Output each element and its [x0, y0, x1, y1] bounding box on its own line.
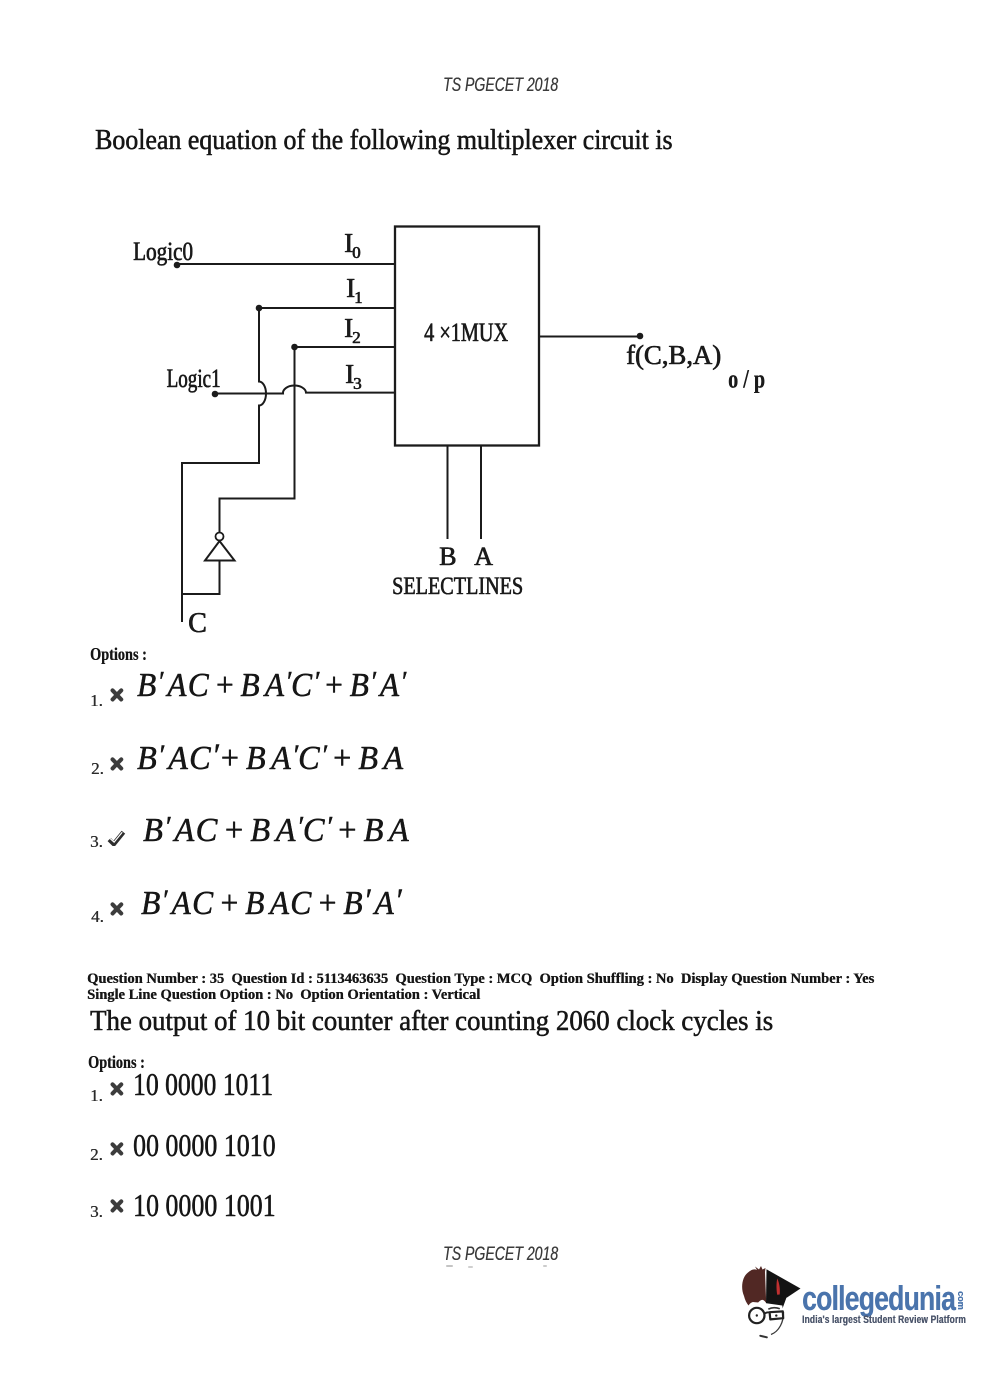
svg-text:SELECTLINES: SELECTLINES — [392, 573, 523, 600]
svg-text:Logic0: Logic0 — [133, 237, 193, 266]
svg-text:1: 1 — [354, 288, 363, 307]
svg-text:o / p: o / p — [728, 365, 765, 394]
svg-text:C: C — [188, 608, 207, 639]
svg-text:4 ×1MUX: 4 ×1MUX — [424, 318, 508, 347]
svg-text:A: A — [474, 542, 493, 571]
svg-text:3: 3 — [353, 374, 362, 393]
svg-text:f(C,B,A): f(C,B,A) — [626, 340, 721, 370]
svg-text:Logic1: Logic1 — [167, 364, 221, 393]
svg-text:0: 0 — [352, 243, 361, 262]
svg-text:2: 2 — [352, 328, 361, 347]
svg-text:B: B — [439, 542, 456, 571]
